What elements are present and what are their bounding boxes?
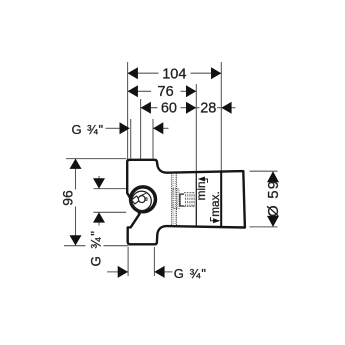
svg-text:min.: min. [194,178,208,200]
svg-text:104: 104 [162,66,186,82]
svg-text:96: 96 [60,190,76,206]
svg-text:28: 28 [200,101,216,117]
svg-text:max.: max. [208,191,222,217]
svg-text:G ¾": G ¾" [174,266,207,281]
svg-text:Ø 59: Ø 59 [265,180,282,217]
svg-text:G ¾": G ¾" [89,229,104,266]
svg-text:G ¾": G ¾" [72,122,104,137]
svg-text:60: 60 [161,101,177,117]
svg-text:76: 76 [158,84,174,100]
